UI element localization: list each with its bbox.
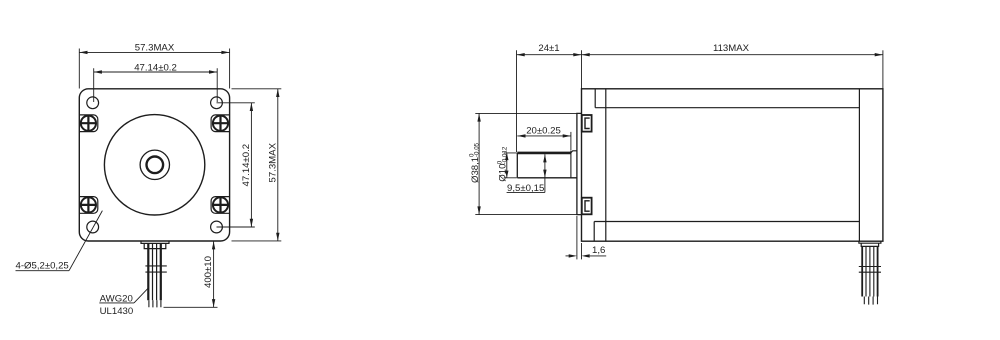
dim 113MAX: arrows [582, 53, 883, 56]
screw head Q-TR cross [214, 116, 228, 130]
dim D38.1: arrows [477, 113, 480, 214]
svg-text:Ø10: Ø10 [498, 164, 509, 182]
stator top step [594, 89, 596, 108]
stator bottom silhouette line [594, 221, 859, 223]
shaft shoulder top edge [571, 151, 577, 153]
motor body front flange outline [79, 89, 229, 241]
side screw bottom slot [585, 201, 590, 211]
mounting hole bottom-right [211, 221, 223, 233]
svg-text:47.14±0.2: 47.14±0.2 [241, 144, 252, 187]
cable gland side view [859, 241, 881, 246]
svg-text:47.14±0.2: 47.14±0.2 [134, 62, 177, 73]
screw head Q-TL cross [81, 116, 95, 130]
dim 20: arrows [517, 134, 571, 137]
dim 400 wires: dimension line [213, 241, 215, 307]
svg-text:57.3MAX: 57.3MAX [135, 43, 175, 54]
mounting hole top-left [87, 97, 99, 109]
shaft circle D10 [147, 157, 164, 174]
dim 24: arrows [517, 53, 582, 56]
dim D38.1: rotated text with tolerance [469, 142, 481, 183]
dim D38.1: dimension line [478, 113, 480, 214]
dim D38.1: extension lines [475, 113, 577, 214]
svg-text:4-Ø5,2±0,25: 4-Ø5,2±0,25 [16, 261, 69, 272]
dim 47.14 top: arrows [94, 70, 218, 73]
pilot boss side view [577, 113, 582, 214]
side screw top rect [582, 115, 592, 132]
dim 1,6: extension line right [581, 243, 583, 259]
dim 47.14 top: dimension line [94, 71, 218, 73]
mounting hole top-right [211, 97, 223, 109]
screw head Q-BL cross [81, 198, 95, 212]
side screw bottom rect [582, 198, 592, 215]
dim 20: dimension line [517, 135, 571, 137]
pilot circle D38.1 [104, 115, 204, 215]
dim 57.3MAX right: extension lines [232, 89, 282, 241]
dim D10: rotated text with tolerance [496, 146, 508, 182]
shaft top edge with flat (thick) [517, 152, 571, 155]
dim 47.14 right: dimension line [250, 103, 252, 227]
dim 113MAX: dimension line [582, 54, 883, 56]
svg-text:Ø38,1: Ø38,1 [470, 157, 481, 183]
dim 24: dimension line [517, 54, 582, 56]
stator top silhouette line [595, 107, 859, 109]
leader 4-D5,2 underline [16, 270, 70, 272]
dim 47.14 top: extension lines [94, 68, 218, 102]
screw tab top-right [211, 115, 230, 132]
dim 1,6: extension line left [576, 216, 578, 259]
screw head Q-BR cross [214, 198, 228, 212]
dim D10: extension lines [504, 153, 517, 178]
wire bundle front view [148, 244, 161, 301]
screw head Q-BR circle [213, 197, 228, 212]
dim 1,6: right arrow with tail [590, 255, 607, 257]
wire break tick 1 front [145, 265, 166, 267]
wire break tick 2 side [859, 271, 881, 273]
front end cap boundary [605, 89, 607, 241]
dim 400 wires: arrows [212, 241, 215, 307]
dim 113MAX: extension at body rear [882, 50, 884, 89]
leader 4-D5,2 line [69, 211, 102, 271]
wire tails front view [149, 300, 161, 307]
dim 47.14 right: arrows [250, 103, 253, 227]
dim 47.14 right: extension lines [217, 103, 255, 227]
dim 9,5: text underline [507, 191, 545, 193]
screw head Q-TL circle [81, 116, 96, 131]
dim 57.3MAX right: arrows [276, 89, 279, 241]
wire bundle side view [862, 246, 877, 296]
hub circle [140, 150, 169, 179]
dim 24: extension line at shaft tip [516, 50, 518, 152]
label AWG20 leader [134, 288, 148, 303]
dim 9,5: arrows [543, 154, 546, 178]
dim 57.3MAX top: arrows [79, 51, 229, 54]
svg-text:57.3MAX: 57.3MAX [268, 142, 279, 182]
side screw top slot [585, 118, 590, 128]
svg-text:-0,012: -0,012 [501, 146, 508, 164]
svg-text:9,5±0,15: 9,5±0,15 [507, 183, 544, 194]
dim 20: extension line upper [570, 132, 572, 151]
wire break tick 1 side [859, 266, 881, 268]
dim 24: extension at body front [581, 50, 583, 89]
svg-text:UL1430: UL1430 [100, 306, 134, 317]
wire break tick 2 front [145, 271, 166, 273]
svg-text:-0,05: -0,05 [474, 142, 481, 157]
screw tab top-left [79, 115, 98, 132]
svg-text:113MAX: 113MAX [713, 43, 750, 54]
cable gland front view [141, 241, 169, 249]
stator bottom step [593, 222, 595, 242]
shaft side view outline [517, 153, 577, 178]
motor body side outline [582, 89, 883, 241]
dim D10: dimension line [506, 153, 508, 178]
svg-text:20±0.25: 20±0.25 [526, 126, 561, 137]
screw tab bottom-left [79, 197, 98, 214]
rear end cap boundary [858, 89, 860, 241]
dim D10: arrows [505, 153, 508, 178]
mounting hole bottom-left [87, 221, 99, 233]
screw head Q-TR circle [213, 116, 228, 131]
svg-text:1,6: 1,6 [592, 245, 605, 256]
svg-text:24±1: 24±1 [538, 43, 559, 54]
screw tab bottom-right [211, 197, 230, 214]
dim 57.3MAX top: extension lines [79, 49, 229, 89]
dim 400 wires: bottom extension line [164, 306, 218, 308]
svg-text:400±10: 400±10 [203, 256, 214, 288]
dim 9,5: vertical dimension line flat-to-bottom [544, 154, 546, 192]
dim 1,6: left arrow with tail [566, 255, 570, 257]
shaft shoulder step [570, 151, 572, 178]
dim 57.3MAX right: dimension line [277, 89, 279, 241]
wire tails side view [864, 297, 877, 305]
label AWG20 underline [99, 302, 134, 304]
screw head Q-BL circle [81, 197, 96, 212]
dim 57.3MAX top: dimension line [79, 51, 229, 53]
